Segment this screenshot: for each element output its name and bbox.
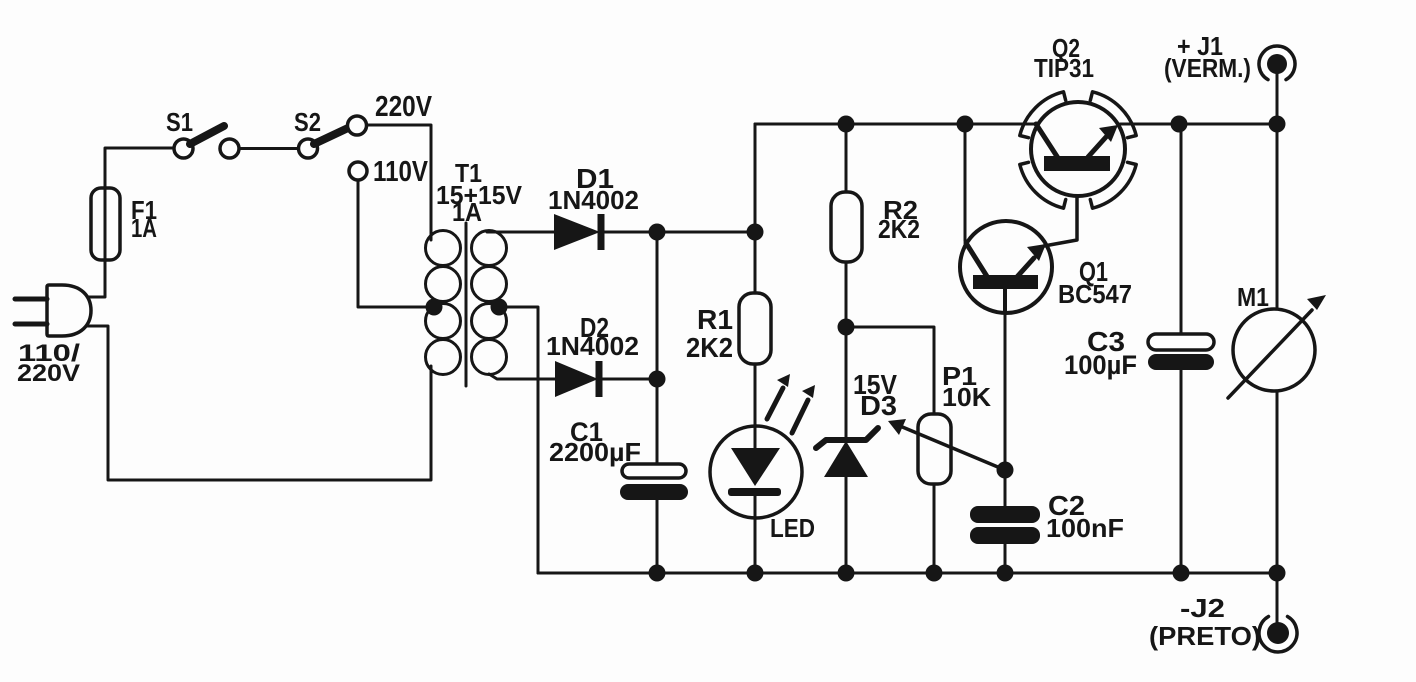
terminal 110V	[349, 162, 367, 180]
resistor R1 2K2	[739, 293, 771, 364]
terminal J1	[1259, 46, 1295, 80]
wire LED to rail	[754, 495, 757, 573]
node R2 bottom junction	[838, 319, 855, 336]
LED	[710, 374, 815, 518]
P1 wiper arrow	[888, 419, 1005, 470]
node D1 output	[649, 224, 666, 241]
switch S1	[174, 126, 239, 158]
wire D1 cathode to riser	[603, 231, 755, 234]
svg-text:1A: 1A	[131, 213, 157, 243]
svg-text:(PRETO): (PRETO)	[1149, 621, 1261, 651]
svg-text:LED: LED	[770, 513, 815, 543]
node bottom rail D3	[838, 565, 855, 582]
wire D2 cathode to junction	[598, 378, 657, 381]
wire M1 to rail	[1276, 391, 1279, 573]
transformer T1	[426, 223, 507, 386]
node secondary center tap	[491, 299, 508, 316]
wire rail to M1	[1276, 124, 1279, 310]
wire node to D3	[845, 327, 848, 441]
AC plug	[15, 285, 91, 336]
wire P1 to rail	[933, 484, 936, 573]
svg-text:2K2: 2K2	[686, 332, 733, 363]
wire Q1 base to C2 node	[1004, 289, 1007, 506]
svg-text:1N4002: 1N4002	[548, 185, 639, 215]
svg-text:TIP31: TIP31	[1034, 53, 1094, 83]
wire secondary center tap to ground rail	[499, 307, 538, 573]
terminal 220V	[348, 116, 367, 135]
node top rail Q1 collector	[957, 116, 974, 133]
svg-text:R1: R1	[697, 304, 733, 335]
transistor Q2 TIP31	[1031, 102, 1125, 196]
wire D3 to rail	[845, 476, 848, 573]
wire riser to R1	[754, 232, 757, 293]
Q2 heatsink arcs	[1020, 92, 1136, 208]
wire rail to J2	[1276, 573, 1279, 622]
capacitor C2 100nF	[970, 506, 1040, 544]
wire C3 to rail	[1180, 370, 1183, 573]
capacitor C1 2200uF	[620, 464, 688, 500]
wire riser to top rail	[754, 124, 757, 232]
svg-text:220V: 220V	[17, 360, 80, 387]
node bottom rail C1	[649, 565, 666, 582]
transistor Q1 BC547	[960, 171, 1077, 313]
wire R2 to node	[845, 262, 848, 327]
meter M1	[1228, 295, 1326, 398]
svg-text:-J2: -J2	[1180, 593, 1225, 623]
wire plug top to fuse to S1	[86, 148, 174, 297]
wire rail to C3	[1180, 124, 1183, 334]
primary winding	[426, 231, 461, 266]
secondary winding	[472, 231, 507, 266]
node riser top of R1	[747, 224, 764, 241]
wire S1 to S2	[239, 147, 298, 150]
diode D2 1N4002	[555, 361, 599, 397]
node D2 output	[649, 371, 666, 388]
zener diode D3 15V	[816, 428, 878, 477]
wire node to P1	[846, 327, 934, 414]
diode D1 1N4002	[554, 214, 601, 250]
svg-text:(VERM.): (VERM.)	[1164, 53, 1251, 83]
node bottom rail M1/J2	[1269, 565, 1286, 582]
svg-text:110V: 110V	[373, 156, 429, 188]
svg-text:1A: 1A	[452, 197, 482, 227]
wire top rail left segment	[755, 123, 1036, 126]
node wiper/C2/Q1 base	[997, 462, 1014, 479]
node bottom rail LED	[747, 565, 764, 582]
node bottom rail C2	[997, 565, 1014, 582]
wire secondary top to D1	[487, 231, 554, 234]
wire secondary bottom to D2	[489, 374, 555, 379]
node bottom rail P1	[926, 565, 943, 582]
wire C2 to rail	[1004, 544, 1007, 573]
capacitor C3 100uF	[1148, 334, 1214, 370]
switch S2	[299, 116, 368, 180]
resistor R2 2K2	[831, 192, 862, 262]
wire plug bottom to primary bottom	[86, 326, 431, 480]
svg-text:S1: S1	[166, 107, 193, 137]
svg-text:2200µF: 2200µF	[549, 437, 641, 467]
terminal J2	[1259, 617, 1297, 652]
wire J1 to rail	[1276, 74, 1279, 124]
svg-text:D3: D3	[860, 390, 897, 421]
svg-text:100nF: 100nF	[1046, 513, 1124, 543]
potentiometer P1 10K	[918, 414, 951, 484]
wire 110V to primary center tap	[358, 181, 434, 307]
wire C1 to rail	[656, 499, 659, 573]
node top rail C3	[1171, 116, 1188, 133]
svg-text:220V: 220V	[375, 91, 433, 123]
node top rail J1	[1269, 116, 1286, 133]
core	[465, 223, 468, 386]
svg-text:100µF: 100µF	[1064, 350, 1137, 380]
fuse F1	[91, 188, 120, 260]
svg-text:10K: 10K	[942, 382, 991, 412]
wire rail to R2	[845, 124, 848, 192]
node top rail R2	[838, 116, 855, 133]
wire rail to Q1 collector	[964, 124, 967, 241]
node primary center tap	[426, 299, 443, 316]
wire bottom rail	[538, 572, 1277, 575]
svg-text:2K2: 2K2	[878, 214, 920, 244]
svg-text:S2: S2	[294, 107, 321, 137]
wire top rail right segment	[1120, 123, 1277, 126]
svg-text:1N4002: 1N4002	[546, 331, 639, 361]
svg-text:BC547: BC547	[1058, 279, 1132, 309]
LED light arrows	[767, 388, 783, 419]
wire 220V to transformer primary top	[366, 125, 431, 240]
wire R1 to LED	[754, 364, 757, 450]
svg-text:M1: M1	[1237, 282, 1269, 312]
wire junction vertical D1-D2-C1	[656, 232, 659, 465]
node bottom rail C3	[1173, 565, 1190, 582]
